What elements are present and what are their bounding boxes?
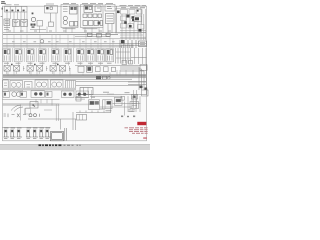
bottom module 4 <box>26 128 32 139</box>
lower bus band <box>3 74 146 79</box>
page header text <box>1 2 6 4</box>
small gray unit <box>77 115 87 121</box>
small module 3 <box>46 92 53 98</box>
wire drop lines <box>7 12 103 33</box>
aux block <box>25 82 33 91</box>
right bus block <box>120 40 147 58</box>
red logo block <box>137 122 146 125</box>
scan tint overlay <box>2 5 147 141</box>
page background <box>0 0 150 150</box>
top row tick marks <box>97 7 112 9</box>
far right lower boxes <box>121 90 148 116</box>
valve module 1 <box>3 49 11 62</box>
sparse right lines <box>135 48 147 64</box>
horizontal bus 1 <box>3 33 146 39</box>
tank unit left <box>3 80 9 92</box>
actuator pair 1 <box>4 64 20 74</box>
unit B label <box>83 27 98 30</box>
right lower cluster <box>75 97 122 110</box>
bus connectors <box>8 68 140 77</box>
bottom module row <box>4 128 51 139</box>
thick gray band left <box>3 88 76 91</box>
left drop lines <box>21 104 59 121</box>
bottom module 1 <box>4 128 10 139</box>
lighten wash <box>2 2 147 142</box>
inter-module wires <box>7 48 105 66</box>
lower feed line <box>3 99 60 110</box>
module with dots A <box>62 91 75 98</box>
aux box 2 <box>66 81 76 91</box>
cluster label specks <box>91 92 114 111</box>
wire components on bus <box>88 33 111 37</box>
valve module 3 <box>27 49 35 62</box>
bottom module 3 <box>17 128 23 139</box>
hydraulic unit A <box>61 5 78 28</box>
valve box A <box>13 20 20 27</box>
valve module 10 <box>106 49 114 62</box>
circle on wire <box>40 40 44 44</box>
pump motor unit 2 <box>35 80 48 90</box>
accumulator right <box>106 6 117 33</box>
valve module 2 <box>15 49 23 62</box>
filter drop <box>30 13 54 30</box>
actuator pair 2 <box>27 64 43 74</box>
cell marks <box>6 7 49 11</box>
border frame <box>2 6 146 141</box>
top row label specks <box>5 3 114 5</box>
bus assembly blob <box>96 76 110 80</box>
small parts strip <box>4 114 40 118</box>
valve box B <box>21 20 28 27</box>
right long wires <box>76 82 146 95</box>
bottom gray band <box>0 144 150 150</box>
far right corner cluster <box>120 61 146 96</box>
valve module 7 <box>77 49 85 62</box>
caption text <box>39 144 62 146</box>
red part number <box>143 137 147 138</box>
thick gray band 2 <box>3 103 60 106</box>
valve row bottom specks <box>4 62 112 65</box>
tank verticals <box>3 127 67 140</box>
right cluster outer box <box>116 9 142 34</box>
pump assembly <box>31 17 42 26</box>
bus vertical ticks <box>7 33 113 48</box>
upper link wire <box>76 105 111 113</box>
main valve row <box>3 49 114 62</box>
pump motor unit 1 <box>10 81 23 92</box>
valve module 9 <box>97 49 105 62</box>
dense bus band <box>3 43 146 47</box>
top-right label text row <box>120 5 147 8</box>
red title text <box>125 127 148 134</box>
bottom module 6 <box>39 128 45 139</box>
valve module 8 <box>87 49 95 62</box>
swing arcs <box>11 102 38 112</box>
reservoir box <box>51 132 64 141</box>
caption light marks <box>64 145 81 146</box>
actuator row <box>4 64 66 74</box>
valve module 4 <box>39 49 47 62</box>
swing unit dots <box>31 91 45 98</box>
valve module 5 <box>52 49 60 62</box>
long link wire <box>28 112 76 130</box>
wire label specks <box>8 31 115 43</box>
lower-left module row <box>3 91 52 98</box>
actuator pair 3 <box>50 64 66 74</box>
small module 2 <box>20 92 27 98</box>
bottom module 7 <box>45 128 51 139</box>
top row boxes <box>5 5 116 14</box>
inter-actuator marks <box>23 66 71 71</box>
pump motor unit 3 <box>51 80 64 90</box>
bottom module 5 <box>33 128 39 139</box>
valve module 6 <box>64 49 72 62</box>
unit A label <box>63 27 76 30</box>
vertical line bank <box>116 48 131 64</box>
left feed component <box>4 19 10 29</box>
small module 1 <box>3 92 10 98</box>
right dense component cluster <box>120 9 146 40</box>
bottom module 2 <box>10 128 16 139</box>
hydraulic unit B <box>81 5 104 28</box>
module with dots B <box>76 91 89 98</box>
pump pair circles <box>12 92 21 97</box>
right small box <box>80 88 93 95</box>
right mid boxes <box>75 65 147 72</box>
